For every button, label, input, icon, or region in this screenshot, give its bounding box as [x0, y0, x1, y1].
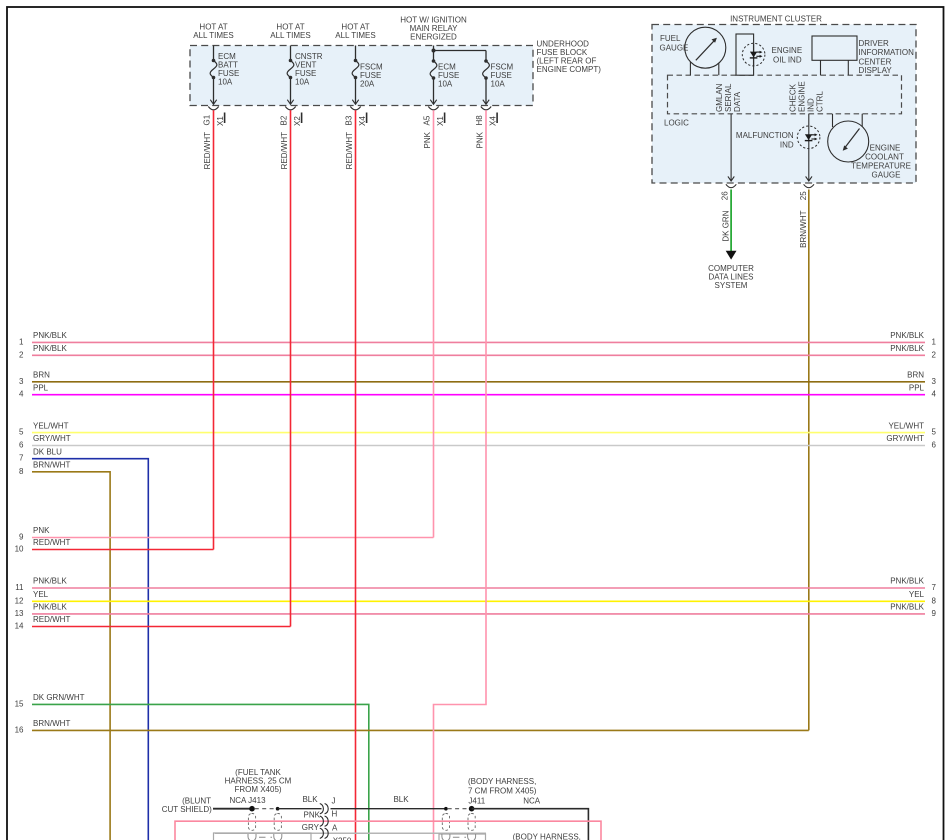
connector cup B2/X2 — [280, 107, 303, 127]
svg-text:IND: IND — [807, 98, 816, 112]
underhood fuse block box — [190, 46, 533, 106]
svg-text:FROM X405): FROM X405) — [234, 785, 281, 794]
svg-text:DATA: DATA — [733, 91, 742, 112]
svg-text:RED/WHT: RED/WHT — [280, 132, 289, 169]
svg-text:4: 4 — [932, 390, 937, 399]
svg-text:PPL: PPL — [909, 383, 925, 392]
svg-text:BRN/WHT: BRN/WHT — [33, 719, 70, 728]
svg-text:ENGINE: ENGINE — [798, 81, 807, 112]
fuse F3 FSCM FUSE 20A — [352, 46, 383, 105]
svg-text:7 CM FROM X405): 7 CM FROM X405) — [468, 786, 537, 795]
svg-text:J411: J411 — [468, 796, 485, 805]
wire row 13 PNK/BLK — [15, 603, 937, 618]
svg-text:YEL: YEL — [909, 590, 925, 599]
svg-text:PNK/BLK: PNK/BLK — [890, 577, 924, 586]
svg-text:7: 7 — [19, 454, 24, 463]
connector X250 pin H — [320, 809, 338, 826]
wire PNK from fuse F5 (H8) down with jog to page bottom — [434, 110, 487, 840]
terminal dashed box right B — [468, 814, 475, 831]
wire DK GRN pin 26 — [722, 190, 737, 260]
svg-text:(BODY HARNESS,: (BODY HARNESS, — [513, 832, 581, 840]
wire row 12 YEL — [15, 590, 937, 605]
label FUEL TANK HARNESS 25 CM FROM X405 — [225, 768, 292, 794]
svg-text:10A: 10A — [218, 77, 233, 86]
wire row 8 BRN/WHT — [19, 461, 110, 840]
wire dashed segment J413 — [255, 808, 276, 810]
svg-text:GAUGE: GAUGE — [660, 44, 689, 53]
wire BRN/WHT pin 25 (vertical) — [799, 190, 809, 731]
svg-text:B2: B2 — [280, 115, 289, 125]
svg-text:X250: X250 — [333, 837, 352, 840]
wire PNK from fuse F4 (A5) down to row 9 — [433, 110, 435, 537]
wire row 11 PNK/BLK — [15, 577, 936, 592]
svg-text:YEL/WHT: YEL/WHT — [33, 421, 69, 430]
feed wire and junction for fuses F4/F5 — [432, 46, 487, 62]
wire row 9 PNK — [19, 526, 433, 541]
svg-text:GAUGE: GAUGE — [872, 171, 901, 180]
fuse F4 ECM FUSE 10A — [430, 51, 459, 105]
label HOT AT ALL TIMES (fuse 3) — [335, 22, 375, 40]
wire row 5 YEL/WHT — [19, 421, 936, 436]
svg-text:ALL TIMES: ALL TIMES — [335, 31, 375, 40]
wire row 10 RED/WHT — [15, 538, 214, 553]
connector cup B3/X4 — [345, 107, 368, 127]
wire row 1 PNK/BLK — [19, 331, 936, 346]
label BODY HARNESS 7 CM FROM X405 — [468, 777, 537, 795]
svg-text:X2: X2 — [293, 116, 302, 126]
connector cup pin 26 — [721, 184, 737, 200]
terminal dashed box left B — [274, 814, 281, 831]
svg-text:15: 15 — [15, 699, 24, 708]
svg-text:RED/WHT: RED/WHT — [345, 132, 354, 169]
connector cup pin 25 — [799, 184, 814, 200]
svg-text:PNK/BLK: PNK/BLK — [33, 577, 67, 586]
label UNDERHOOD FUSE BLOCK — [537, 40, 602, 75]
svg-text:PNK/BLK: PNK/BLK — [33, 603, 67, 612]
svg-text:7: 7 — [932, 583, 937, 592]
svg-text:ENGINE COMPT): ENGINE COMPT) — [537, 65, 602, 74]
connector cup A5/X1 — [423, 107, 446, 127]
node COMPUTER DATA LINES SYSTEM — [708, 264, 754, 290]
wire row 15 DK GRN/WHT — [15, 693, 369, 840]
svg-text:A5: A5 — [423, 115, 432, 125]
svg-text:MALFUNCTION: MALFUNCTION — [736, 131, 794, 140]
svg-text:12: 12 — [15, 596, 24, 605]
fuse F1 ECM BATT FUSE 10A — [210, 46, 239, 105]
malfunction indicator LED — [736, 114, 820, 181]
svg-text:ALL TIMES: ALL TIMES — [193, 31, 233, 40]
svg-text:OIL IND: OIL IND — [773, 56, 802, 65]
svg-text:PNK/BLK: PNK/BLK — [890, 331, 924, 340]
svg-text:NCA J413: NCA J413 — [230, 796, 267, 805]
engine coolant temperature gauge — [828, 114, 911, 180]
svg-text:PNK/BLK: PNK/BLK — [33, 344, 67, 353]
wire BLK NCA to corner — [472, 809, 589, 840]
svg-text:ENERGIZED: ENERGIZED — [410, 33, 457, 42]
svg-text:20A: 20A — [360, 80, 375, 89]
junction dot right small — [444, 807, 448, 811]
fuse F5 FSCM FUSE 10A — [483, 59, 514, 104]
label BLUNT CUT SHIELD — [162, 797, 212, 814]
svg-text:6: 6 — [19, 441, 24, 450]
terminal dashed box right A — [442, 814, 449, 831]
wire row 6 GRY/WHT — [19, 434, 936, 449]
svg-text:4: 4 — [19, 390, 24, 399]
svg-text:H: H — [332, 809, 338, 818]
fuse F2 CNSTR VENT FUSE 10A — [287, 46, 323, 105]
junction dot left small — [276, 807, 280, 811]
svg-text:NCA: NCA — [523, 796, 541, 805]
svg-text:8: 8 — [932, 596, 937, 605]
svg-text:TEMPERATURE: TEMPERATURE — [851, 162, 911, 171]
svg-text:IND: IND — [780, 140, 794, 149]
svg-text:RED/WHT: RED/WHT — [33, 538, 70, 547]
svg-text:1: 1 — [19, 337, 24, 346]
svg-text:13: 13 — [15, 609, 24, 618]
svg-text:16: 16 — [15, 725, 24, 734]
logic inner dashed box — [664, 75, 902, 127]
svg-text:SYSTEM: SYSTEM — [715, 281, 748, 290]
svg-text:GRY/WHT: GRY/WHT — [886, 434, 924, 443]
svg-text:2: 2 — [19, 350, 24, 359]
svg-text:INSTRUMENT CLUSTER: INSTRUMENT CLUSTER — [730, 14, 822, 23]
svg-text:H8: H8 — [475, 115, 484, 126]
svg-text:3: 3 — [19, 377, 24, 386]
svg-text:BLK: BLK — [393, 795, 409, 804]
connector cup G1/X1 — [203, 107, 226, 127]
svg-text:8: 8 — [19, 467, 24, 476]
node GMLAN SERIAL DATA — [715, 83, 742, 112]
svg-text:BRN: BRN — [907, 371, 924, 380]
svg-text:YEL: YEL — [33, 590, 49, 599]
svg-text:X1: X1 — [216, 116, 225, 126]
wire BLK to connector X250 pin J — [278, 808, 322, 810]
fuel gauge — [660, 27, 726, 75]
svg-text:2: 2 — [932, 350, 937, 359]
connector body gray right — [439, 834, 486, 840]
label HOT AT ALL TIMES (fuse 2) — [270, 22, 310, 40]
svg-text:G1: G1 — [203, 114, 212, 125]
wire GRY — [215, 823, 486, 834]
svg-text:DK BLU: DK BLU — [33, 447, 62, 456]
svg-text:COOLANT: COOLANT — [865, 152, 904, 161]
wire RED/WHT from fuse F1 (G1) down to row 10 — [213, 110, 215, 549]
svg-text:CHECK: CHECK — [789, 83, 798, 112]
svg-text:BRN/WHT: BRN/WHT — [33, 461, 70, 470]
node CHECK ENGINE IND CTRL — [789, 81, 825, 112]
svg-text:ENGINE: ENGINE — [870, 143, 901, 152]
svg-text:X1: X1 — [436, 116, 445, 126]
svg-text:14: 14 — [15, 622, 24, 631]
svg-text:3: 3 — [932, 377, 937, 386]
engine oil indicator — [736, 34, 802, 75]
svg-text:26: 26 — [721, 191, 730, 200]
svg-text:PNK: PNK — [33, 526, 50, 535]
svg-text:1: 1 — [932, 337, 937, 346]
svg-text:10A: 10A — [438, 80, 453, 89]
wire row 16 BRN/WHT — [15, 719, 809, 734]
svg-text:PNK/BLK: PNK/BLK — [890, 344, 924, 353]
svg-text:B3: B3 — [345, 115, 354, 125]
wire RED/WHT from fuse F3 (B3) down to page bottom — [355, 110, 357, 840]
svg-text:YEL/WHT: YEL/WHT — [888, 421, 924, 430]
svg-text:5: 5 — [19, 428, 24, 437]
svg-text:BRN/WHT: BRN/WHT — [799, 210, 808, 247]
svg-text:X4: X4 — [489, 116, 498, 126]
svg-text:RED/WHT: RED/WHT — [203, 132, 212, 169]
svg-text:5: 5 — [932, 428, 937, 437]
wire PNK harness box — [175, 811, 601, 840]
wire BLK (body harness) — [331, 808, 446, 810]
junction J411 — [469, 806, 475, 812]
svg-text:CUT SHIELD): CUT SHIELD) — [162, 805, 212, 814]
svg-text:GRY: GRY — [302, 823, 320, 832]
svg-text:INFORMATION: INFORMATION — [859, 48, 915, 57]
svg-text:SERIAL: SERIAL — [724, 83, 733, 112]
wire row 2 PNK/BLK — [19, 344, 936, 359]
wire gmlan inside cluster — [730, 114, 732, 180]
svg-text:PNK: PNK — [423, 131, 432, 148]
svg-text:CTRL: CTRL — [816, 91, 825, 112]
wire row 14 RED/WHT — [15, 615, 291, 630]
wire BLK shield stub — [213, 808, 252, 810]
svg-text:10: 10 — [15, 545, 24, 554]
terminal dashed box left A — [248, 814, 255, 831]
svg-text:LOGIC: LOGIC — [664, 119, 689, 128]
svg-text:DK GRN/WHT: DK GRN/WHT — [33, 693, 85, 702]
wire dashed segment J411 — [448, 808, 470, 810]
label HOT W/ IGNITION MAIN RELAY ENERGIZED — [400, 16, 467, 42]
svg-text:BLK: BLK — [302, 795, 318, 804]
terminal marks gray right — [440, 834, 478, 840]
svg-text:9: 9 — [932, 609, 937, 618]
driver information center display — [812, 36, 914, 75]
svg-text:9: 9 — [19, 533, 24, 542]
svg-text:PNK: PNK — [304, 811, 321, 820]
svg-text:RED/WHT: RED/WHT — [33, 615, 70, 624]
connector cup H8/X4 — [475, 107, 498, 127]
wire row 3 BRN — [19, 371, 936, 386]
svg-text:A: A — [332, 823, 338, 832]
svg-text:PPL: PPL — [33, 383, 49, 392]
svg-text:J: J — [332, 797, 336, 806]
svg-text:BRN: BRN — [33, 371, 50, 380]
junction J413 — [249, 806, 255, 812]
svg-text:ALL TIMES: ALL TIMES — [270, 31, 310, 40]
svg-text:DK GRN: DK GRN — [722, 210, 731, 241]
wire row 4 PPL — [19, 383, 936, 398]
svg-text:10A: 10A — [491, 80, 506, 89]
wire RED/WHT from fuse F2 (B2) down to row 14 — [290, 110, 292, 626]
svg-text:DRIVER: DRIVER — [859, 39, 889, 48]
svg-text:GMLAN: GMLAN — [715, 83, 724, 112]
svg-text:X4: X4 — [358, 116, 367, 126]
svg-text:DISPLAY: DISPLAY — [859, 66, 893, 75]
svg-text:GRY/WHT: GRY/WHT — [33, 434, 71, 443]
connector body gray left — [214, 833, 312, 840]
svg-text:11: 11 — [15, 583, 24, 592]
svg-text:PNK: PNK — [476, 131, 485, 148]
svg-text:10A: 10A — [295, 77, 310, 86]
wire row 7 DK BLU — [19, 447, 148, 840]
svg-text:FUEL: FUEL — [660, 34, 681, 43]
svg-text:ENGINE: ENGINE — [772, 46, 803, 55]
svg-text:PNK/BLK: PNK/BLK — [890, 603, 924, 612]
instrument cluster box — [652, 14, 916, 183]
svg-text:CENTER: CENTER — [859, 57, 892, 66]
svg-text:6: 6 — [932, 441, 937, 450]
svg-text:PNK/BLK: PNK/BLK — [33, 331, 67, 340]
connector X250 pin J — [320, 797, 336, 814]
svg-text:25: 25 — [799, 191, 808, 200]
terminal marks gray left — [246, 834, 284, 840]
label HOT AT ALL TIMES (fuse 1) — [193, 22, 233, 40]
connector X250 pin A — [320, 823, 352, 840]
svg-text:(BODY HARNESS,: (BODY HARNESS, — [468, 777, 536, 786]
